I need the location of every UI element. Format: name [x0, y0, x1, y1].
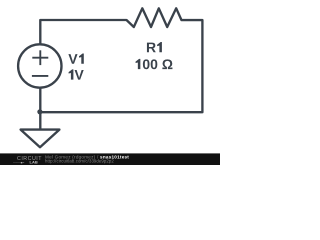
svg-text:—~—■≈: —~—■≈: [13, 160, 25, 164]
svg-text:http://circuitlab.com/c/339de9: http://circuitlab.com/c/339de9p2p2: [45, 159, 114, 164]
svg-text:LAB: LAB: [30, 160, 38, 165]
